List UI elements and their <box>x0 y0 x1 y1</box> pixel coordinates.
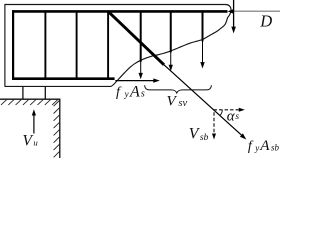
dashed horizontal reference line <box>214 109 240 111</box>
svg-text:s: s <box>235 112 239 122</box>
longitudinal steel force arrow <box>115 80 154 82</box>
svg-text:y: y <box>124 89 129 99</box>
stirrup 5 force arrow <box>170 51 172 65</box>
svg-text:sb: sb <box>200 133 209 143</box>
bent-up bar force line f_y A_sb <box>164 65 242 136</box>
stirrup 4 force arrow <box>140 60 142 73</box>
brace for V_sv <box>145 85 212 93</box>
support right edge <box>59 99 61 158</box>
bottom chord (longitudinal steel) <box>12 77 115 80</box>
support ground line <box>0 98 60 100</box>
beam outline with critical diagonal crack <box>5 5 231 87</box>
svg-text:s: s <box>141 89 145 100</box>
stirrup 1 <box>44 11 46 78</box>
compression force arrowhead at crack tip <box>228 9 234 14</box>
svg-text:V: V <box>167 93 178 110</box>
svg-text:sb: sb <box>271 143 280 153</box>
stirrup 5 crossing crack <box>170 11 172 52</box>
support reaction arrow V_u <box>33 115 35 134</box>
svg-text:f: f <box>248 139 254 154</box>
svg-text:f: f <box>116 85 122 100</box>
svg-text:V: V <box>23 133 34 150</box>
svg-text:y: y <box>254 143 259 153</box>
line of action of D (gray) <box>234 10 280 12</box>
support hatching top <box>1 100 58 105</box>
stirrup 6 force arrow <box>202 40 204 63</box>
top chord (compression zone line) <box>12 10 227 13</box>
bearing pad left edge <box>22 86 24 99</box>
stirrup 3 <box>107 11 109 78</box>
dashed vertical component V_sb <box>213 112 215 134</box>
support hatching side <box>54 101 60 158</box>
svg-text:A: A <box>259 137 270 154</box>
vertical load arrow at crack tip <box>233 0 235 27</box>
bearing pad right edge <box>44 86 46 99</box>
svg-text:A: A <box>129 84 140 101</box>
stirrup 6 crossing crack <box>202 11 204 41</box>
svg-text:u: u <box>33 137 38 147</box>
stirrup 2 <box>76 11 78 78</box>
angle arc alpha_s <box>220 110 222 116</box>
stirrup 4 crossing crack <box>140 11 142 61</box>
left chord <box>12 10 14 80</box>
svg-text:sv: sv <box>178 98 187 109</box>
bent-up bar (thick diagonal) <box>108 11 164 64</box>
svg-text:D: D <box>259 12 272 31</box>
